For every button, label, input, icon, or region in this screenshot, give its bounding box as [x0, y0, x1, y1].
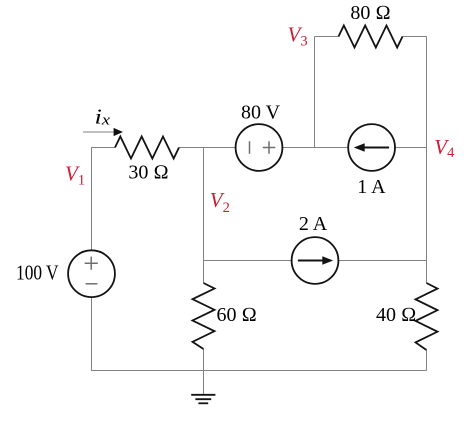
arrowhead of ix	[114, 128, 123, 136]
resistor R 30ohm	[115, 137, 179, 159]
wire 2A row left segment	[204, 260, 292, 262]
wire V3 vertical	[314, 37, 316, 148]
wire 60ohm to bottom	[203, 349, 205, 371]
svg-text:60 Ω: 60 Ω	[217, 304, 257, 326]
svg-text:30 Ω: 30 Ω	[128, 162, 168, 184]
svg-text:80 Ω: 80 Ω	[350, 2, 390, 24]
wire left vertical top (V1 branch)	[91, 148, 93, 251]
wire top row left of 80ohm	[315, 36, 339, 38]
svg-text:1 A: 1 A	[357, 176, 386, 198]
wire V2 vertical upper	[203, 148, 205, 261]
wire top row right of 80ohm	[403, 36, 427, 38]
svg-text:80 V: 80 V	[241, 102, 281, 124]
wire ground stub	[203, 371, 205, 395]
wire ix arrow shaft	[83, 131, 115, 133]
svg-text:2 A: 2 A	[299, 213, 328, 235]
wire middle row left segment	[91, 147, 115, 149]
svg-text:ix: ix	[95, 105, 111, 129]
current source 2A circle	[292, 237, 339, 284]
2A arrow	[298, 260, 325, 262]
svg-text:V3: V3	[288, 22, 308, 49]
wire middle row between 80V source and 1A source	[282, 147, 348, 149]
svg-text:V2: V2	[210, 188, 230, 216]
voltage source 100V circle	[68, 250, 115, 297]
wire bottom row	[91, 370, 427, 372]
svg-text:V4: V4	[434, 135, 455, 161]
80V plus sign	[263, 141, 276, 154]
svg-text:40 Ω: 40 Ω	[376, 304, 416, 326]
wire left vertical bottom	[91, 297, 93, 370]
resistor R 80ohm	[339, 26, 403, 48]
resistor R 60ohm	[193, 283, 215, 349]
wire right vertical upper	[426, 37, 428, 261]
100V plus sign	[85, 257, 98, 270]
resistor R 40ohm	[416, 283, 438, 350]
wire middle row right of 1A source	[395, 147, 427, 149]
current source 1A circle	[348, 124, 395, 171]
wire 40ohm to bottom	[426, 350, 428, 371]
wire V2 vertical to 60ohm	[203, 261, 205, 284]
svg-text:100 V: 100 V	[16, 261, 59, 285]
wire 2A row right segment	[338, 260, 426, 262]
80V minus sign (rotated, vertical bar)	[249, 141, 251, 154]
wire middle row between 30ohm and 80V source	[179, 147, 236, 149]
100V minus sign	[86, 283, 98, 285]
svg-text:V1: V1	[65, 162, 85, 189]
1A arrow	[362, 147, 389, 149]
ground symbol	[191, 395, 215, 404]
voltage source 80V circle	[236, 124, 283, 171]
wire right vertical to 40ohm	[426, 261, 428, 284]
